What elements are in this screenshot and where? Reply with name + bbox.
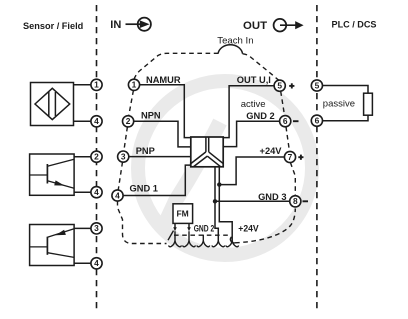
field terminal 3 — [91, 223, 102, 234]
device boundary top right — [243, 54, 280, 81]
wire sensor B3 pin 4 — [74, 262, 91, 264]
polarity + terminal 5 — [289, 83, 294, 88]
arrow PNP emitter — [56, 230, 66, 236]
wire sensor B2 pin 4 — [74, 191, 91, 193]
svg-text:OUT U,I: OUT U,I — [237, 75, 271, 85]
svg-text:NPN: NPN — [141, 110, 161, 120]
field terminal 4c — [91, 258, 102, 269]
device terminal 7 +24V — [284, 151, 295, 162]
device terminal 1 NAMUR — [128, 79, 139, 90]
device boundary top — [134, 53, 218, 79]
wire PNP input — [129, 156, 191, 158]
svg-text:4: 4 — [94, 116, 99, 126]
polarity - terminal 6 — [293, 120, 299, 122]
signal isolator U1 — [191, 137, 223, 167]
Teach In button arc — [218, 45, 243, 54]
wire internal left stem — [215, 167, 218, 241]
svg-text:3: 3 — [121, 151, 126, 161]
svg-text:4: 4 — [94, 258, 99, 268]
junction +24V — [217, 182, 221, 186]
wire PLC input + — [322, 86, 368, 94]
svg-text:1: 1 — [94, 80, 99, 90]
device terminal 8 GND 3 — [290, 196, 301, 207]
polarity + terminal 7 — [298, 155, 303, 160]
FM module — [173, 204, 193, 224]
wire NPN input — [134, 121, 191, 147]
svg-text:GND 1: GND 1 — [130, 184, 158, 194]
svg-text:1: 1 — [132, 80, 137, 90]
FM pin arrow left — [173, 223, 177, 231]
wire sensor B1 pin 4 — [74, 120, 92, 122]
svg-text:2: 2 — [126, 116, 131, 126]
device boundary right (between terminals 5-8) — [281, 91, 285, 116]
sensor B2 (NPN transistor sensor) — [30, 154, 75, 195]
field boundary dashed line — [96, 5, 98, 310]
svg-text:7: 7 — [288, 152, 293, 162]
FM pin arrow right — [187, 223, 191, 231]
svg-text:6: 6 — [283, 116, 288, 126]
boundary hook curve — [230, 237, 235, 243]
svg-text:FM: FM — [176, 209, 188, 219]
ground symbol 2 — [183, 231, 196, 247]
OUT port symbol — [243, 19, 304, 32]
field terminal 1 — [91, 79, 102, 90]
field terminal 4a — [91, 116, 102, 127]
svg-text:OUT: OUT — [243, 20, 267, 32]
PLC terminal 5 — [311, 80, 322, 91]
device boundary left (between terminals 1-4) — [129, 90, 134, 116]
wire sensor B2 pin 2 — [74, 156, 91, 158]
device boundary bottom (through grounds) — [174, 234, 230, 236]
device terminal 2 NPN — [123, 116, 134, 127]
IN port symbol — [110, 18, 151, 31]
load resistor (passive input) — [364, 93, 373, 115]
svg-text:+24V: +24V — [238, 224, 259, 234]
device boundary bottom right — [235, 209, 295, 243]
ground symbol 5 — [226, 241, 239, 247]
sensor B3 (PNP transistor sensor) — [30, 225, 75, 266]
svg-text:8: 8 — [293, 196, 298, 206]
device terminal 3 PNP — [118, 151, 129, 162]
svg-text:6: 6 — [315, 116, 320, 126]
device terminal 5 OUT — [274, 80, 285, 91]
arrow NPN emitter — [54, 180, 64, 185]
wire GND 1 — [123, 165, 191, 195]
wire +24V feed — [219, 157, 284, 185]
boundary slash tick — [168, 231, 174, 241]
svg-text:active: active — [241, 99, 266, 110]
wire PLC input - — [322, 115, 368, 121]
ground symbol 1 — [169, 231, 182, 247]
svg-text:+24V: +24V — [260, 146, 283, 156]
wire internal right stem — [219, 167, 232, 241]
wire GND 3 — [215, 200, 290, 202]
svg-text:4: 4 — [94, 187, 99, 197]
svg-text:Teach In: Teach In — [217, 36, 253, 47]
wire GND 2 — [223, 121, 280, 146]
wire OUT U,I — [223, 86, 274, 138]
svg-text:4: 4 — [115, 190, 120, 200]
svg-text:IN: IN — [110, 19, 121, 31]
svg-text:passive: passive — [323, 98, 355, 109]
svg-text:PNP: PNP — [136, 146, 155, 156]
junction GND 3 — [213, 199, 217, 203]
polarity - terminal 8 — [303, 200, 309, 202]
PLC boundary dashed line — [316, 5, 318, 310]
sensor B1 (NAMUR proximity sensor) — [31, 83, 74, 126]
ground symbol 4 — [212, 241, 225, 247]
svg-text:NAMUR: NAMUR — [146, 75, 181, 85]
svg-text:3: 3 — [94, 223, 99, 233]
device terminal 6 GND 2 — [280, 116, 291, 127]
wire NAMUR input — [139, 85, 190, 138]
svg-text:GND 2: GND 2 — [194, 224, 215, 234]
device boundary bottom left — [118, 201, 167, 244]
svg-text:Sensor / Field: Sensor / Field — [23, 21, 83, 31]
field terminal 2 — [91, 151, 102, 162]
svg-text:GND 2: GND 2 — [246, 111, 274, 121]
svg-text:GND 3: GND 3 — [258, 192, 286, 202]
ground symbol 3 — [197, 235, 210, 247]
svg-text:5: 5 — [277, 81, 282, 91]
svg-text:PLC / DCS: PLC / DCS — [332, 19, 377, 29]
svg-text:5: 5 — [315, 80, 320, 90]
PLC terminal 6 — [311, 115, 322, 126]
wire sensor B1 pin 1 — [74, 84, 92, 86]
svg-text:2: 2 — [94, 152, 99, 162]
device terminal 4 GND 1 — [112, 190, 123, 201]
field terminal 4b — [91, 187, 102, 198]
wire sensor B3 pin 3 — [74, 227, 91, 229]
